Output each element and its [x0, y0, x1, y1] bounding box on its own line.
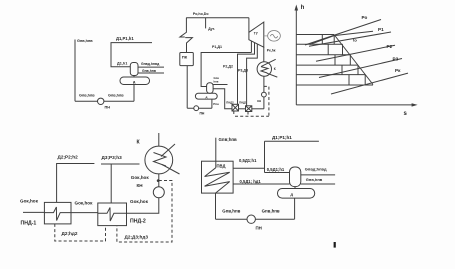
svg-text:0,5Д1; hд1: 0,5Д1; hд1	[240, 179, 262, 184]
wire tank down	[133, 85, 135, 102]
generator	[268, 31, 281, 42]
svg-text:Р1,Д1: Р1,Д1	[212, 45, 222, 49]
wire condenser to КН	[158, 174, 160, 187]
condenser К cooling inlet	[161, 144, 175, 157]
heater П2 (cycle)	[232, 104, 239, 111]
svg-text:Д1,h1: Д1,h1	[117, 61, 127, 65]
svg-text:Рпн: Рпн	[213, 102, 219, 106]
wire column stub right	[213, 84, 227, 86]
svg-text:ПНД2: ПНД2	[226, 101, 234, 105]
heater П1 cross	[246, 106, 252, 112]
wire Gпв out	[301, 183, 335, 185]
svg-text:Д1,Р1,h1: Д1,Р1,h1	[116, 36, 134, 41]
pump ПН	[98, 98, 104, 104]
expansion line	[334, 35, 373, 85]
svg-text:Gок,hок: Gок,hок	[75, 201, 94, 206]
svg-text:Д2;hд2: Д2;hд2	[62, 231, 78, 236]
isobar Р2	[316, 45, 395, 61]
drain dashed ПНД-1 to ПНД-2	[55, 224, 106, 241]
wire КН drop	[263, 97, 265, 109]
wire extraction 3	[247, 44, 258, 106]
svg-text:0,5Д1;h1: 0,5Д1;h1	[239, 158, 257, 163]
wire condensate to deaerator	[213, 89, 232, 109]
wire boiler riser with break symbol	[180, 18, 193, 53]
drain dash П1	[247, 112, 249, 117]
deaerator column (top-left)	[130, 63, 138, 76]
deaerator column (bottom-right)	[290, 167, 301, 187]
drain dash П2	[233, 111, 235, 116]
svg-text:ПН: ПН	[256, 225, 262, 230]
svg-text:Gок,hок: Gок,hок	[131, 175, 150, 180]
svg-text:Gпв,hпв: Gпв,hпв	[142, 69, 156, 73]
svg-text:КН: КН	[257, 99, 261, 103]
svg-text:Р2,Д2: Р2,Д2	[223, 64, 233, 68]
svg-text:Д2;Р2;h2: Д2;Р2;h2	[58, 155, 79, 160]
svg-text:Gок,hок: Gок,hок	[20, 198, 39, 203]
wire condensate from КН	[252, 108, 264, 110]
condenser zigzag	[261, 67, 268, 73]
wire steam half 1	[233, 167, 264, 169]
isotherm tо	[310, 31, 373, 44]
heater ПВД	[202, 161, 234, 193]
wire Д1 drop	[264, 141, 266, 172]
wire Gпв out	[138, 72, 164, 74]
svg-text:Gпв,hпв: Gпв,hпв	[306, 177, 323, 182]
svg-text:Ро: Ро	[362, 15, 368, 20]
svg-text:д: д	[206, 95, 208, 99]
svg-text:0,5Д1;h1: 0,5Д1;h1	[267, 167, 285, 172]
drain dashed bottom	[235, 115, 269, 117]
svg-text:Р1: Р1	[378, 27, 384, 32]
wire steam Д2	[57, 164, 95, 203]
deaerator tank Д (cycle)	[195, 93, 217, 99]
pump ПН (cycle)	[194, 106, 199, 111]
condenser К cooling outlet	[162, 165, 180, 175]
svg-text:h: h	[301, 5, 305, 11]
wire boiler feed down	[186, 66, 188, 108]
pump КН	[153, 187, 164, 198]
heater ПВД tube	[205, 168, 230, 193]
cursor mark	[334, 242, 336, 248]
wire turbine inlet	[248, 18, 250, 33]
s axis arrowhead	[412, 103, 418, 106]
enthalpy level hк	[296, 84, 373, 86]
wire turbine exhaust	[263, 47, 265, 62]
svg-text:Gпв: Gпв	[214, 76, 220, 80]
heater П1 (cycle)	[246, 106, 252, 112]
isobar Ро	[305, 20, 381, 46]
wire drain 0,5Д1	[233, 183, 289, 185]
svg-text:ПК: ПК	[182, 55, 188, 60]
wire between ПНД-1 and ПНД-2	[71, 212, 98, 214]
isobar Р1	[309, 32, 391, 46]
svg-text:ПН: ПН	[200, 111, 205, 115]
heater ПНД-2 tube	[98, 208, 127, 222]
wire main steam line Ро	[186, 17, 249, 19]
svg-text:hпв: hпв	[214, 80, 219, 84]
svg-text:Gпвд;hпвд: Gпвд;hпвд	[305, 167, 327, 172]
svg-text:К: К	[274, 67, 276, 71]
pump КН (cycle)	[262, 92, 267, 97]
wire to deaerator tank	[211, 99, 213, 108]
s axis	[296, 104, 413, 106]
wire tank to feed line	[294, 198, 296, 219]
wire feedwater bottom	[75, 100, 134, 102]
wire feed out top	[215, 138, 217, 168]
svg-text:Gпв,hпв: Gпв,hпв	[79, 94, 95, 98]
wire column to tank	[294, 187, 296, 189]
condenser К	[145, 146, 173, 174]
svg-text:Gпвд,hпвд: Gпвд,hпвд	[141, 62, 160, 66]
turbine ТУ	[249, 22, 264, 47]
svg-text:КН: КН	[137, 183, 144, 188]
heater П2 cross	[232, 104, 239, 111]
step ticks 3	[335, 55, 350, 65]
svg-text:Р3,Д3: Р3,Д3	[238, 69, 248, 73]
wire to column	[265, 172, 290, 174]
condenser (cycle)	[257, 62, 271, 76]
svg-text:Д3;Р3;h3: Д3;Р3;h3	[102, 155, 123, 160]
svg-text:Gпв,hпв: Gпв,hпв	[77, 39, 93, 43]
enthalpy level hо	[296, 34, 334, 36]
enthalpy level h1	[296, 43, 342, 45]
wire between heaters	[239, 108, 246, 110]
wire feed in bottom	[215, 193, 217, 219]
enthalpy level h3	[296, 64, 358, 66]
wire steam Д3	[101, 164, 140, 203]
svg-text:Д1;Р1;h1: Д1;Р1;h1	[272, 135, 292, 140]
deaerator tank Д (bottom-right)	[278, 189, 315, 199]
drain dashed takeoff	[264, 86, 269, 116]
svg-text:ПНД-1: ПНД-1	[21, 221, 37, 227]
condenser К zigzag	[154, 153, 167, 167]
svg-text:Д2;Д3;hд3: Д2;Д3;hд3	[125, 234, 149, 239]
svg-text:Р3: Р3	[393, 57, 399, 62]
wire ext1 drop from turbine	[250, 41, 252, 53]
svg-text:Gпв;hпв: Gпв;hпв	[219, 137, 238, 142]
pump ПН	[247, 215, 255, 223]
h axis arrowhead	[295, 5, 299, 11]
enthalpy level h4	[296, 74, 365, 76]
heater ПНД-2	[98, 203, 127, 226]
heater ПНД-1 tube	[44, 207, 71, 221]
wire extraction 1 line Р1,Д1	[201, 53, 251, 87]
enthalpy level h2	[296, 54, 350, 56]
wire extraction Д1 upper	[111, 43, 152, 67]
svg-text:Gпв,hпв: Gпв,hпв	[108, 94, 124, 98]
isobar Р3	[319, 59, 402, 78]
heater ПНД-1	[44, 202, 71, 224]
svg-text:Р2: Р2	[387, 44, 393, 49]
condenser cooling inlet	[261, 59, 276, 66]
svg-text:ПНД-2: ПНД-2	[130, 219, 146, 225]
deaerator tank Д (top-left)	[120, 77, 150, 85]
wire condenser to pump	[263, 76, 265, 92]
svg-text:ПВД: ПВД	[217, 163, 226, 168]
svg-text:s: s	[404, 111, 408, 117]
wire pump suction	[187, 107, 212, 109]
junction dot	[157, 179, 160, 182]
svg-text:ПНД1: ПНД1	[239, 101, 247, 105]
svg-text:К: К	[137, 139, 141, 145]
isobar Рк	[331, 73, 408, 94]
step ticks 4	[342, 65, 358, 75]
step ticks 1	[322, 35, 334, 45]
wire column to tank	[133, 76, 135, 78]
svg-text:Gпв,hпв: Gпв,hпв	[262, 209, 280, 214]
svg-text:Gок,hок: Gок,hок	[130, 199, 149, 204]
step ticks 5	[349, 75, 365, 85]
wire steam into К	[158, 133, 160, 146]
wire Gпвд out	[301, 174, 335, 176]
drain dashed from К line	[117, 181, 172, 243]
boiler ПК	[180, 53, 194, 66]
wire extraction 2	[238, 43, 255, 105]
wire ПНД-2 to КН	[127, 198, 159, 214]
condenser cooling outlet	[267, 73, 277, 77]
wire steam Д1 top	[265, 140, 319, 142]
svg-text:ПН: ПН	[105, 106, 111, 110]
svg-text:Рк: Рк	[395, 68, 401, 73]
deaerator column (cycle)	[207, 83, 214, 94]
svg-text:Рк,hк: Рк,hк	[267, 48, 276, 52]
generator wave	[270, 34, 277, 38]
shaft	[264, 35, 268, 37]
wire feedwater left vertical (top-left fragment)	[74, 40, 76, 102]
svg-text:Ро,hо,Dо: Ро,hо,Dо	[193, 12, 209, 16]
wire feed bottom line	[216, 218, 295, 220]
wire leak stub Дут	[205, 18, 207, 29]
h axis	[295, 9, 297, 105]
svg-text:Дут.: Дут.	[208, 27, 215, 31]
wire condensate inlet	[23, 211, 44, 213]
wire Gпвд out	[138, 66, 164, 68]
step ticks 2	[328, 44, 342, 54]
svg-text:Gпв,hпв: Gпв,hпв	[222, 209, 240, 214]
